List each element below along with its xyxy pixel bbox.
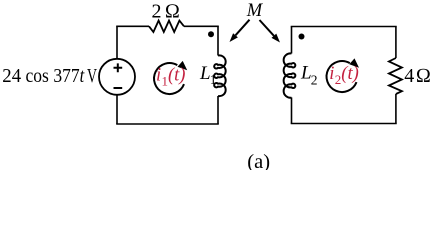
mutual inductance label M xyxy=(246,1,264,21)
label i1(t) xyxy=(156,66,185,89)
inductor L2 xyxy=(284,53,296,97)
label 24 cos 377t V xyxy=(2,65,97,87)
arrow from M to L1 dot xyxy=(230,20,250,42)
wire right-loop left side lower xyxy=(291,97,293,123)
coupling dot for L1 xyxy=(208,31,214,37)
svg-text:Ω: Ω xyxy=(416,65,431,87)
svg-text:4: 4 xyxy=(404,65,414,87)
wire right-loop bottom xyxy=(291,123,397,125)
wire left-loop bottom xyxy=(116,123,219,125)
svg-text:(t): (t) xyxy=(341,64,358,84)
wire right-loop left side upper xyxy=(291,27,293,54)
svg-text:1: 1 xyxy=(210,72,217,87)
svg-text:M: M xyxy=(246,1,264,21)
figure label (a) xyxy=(247,151,270,173)
svg-text:V: V xyxy=(87,65,97,87)
label 4 Ohm xyxy=(404,65,431,87)
svg-text:i: i xyxy=(329,64,334,84)
svg-text:(t): (t) xyxy=(168,66,185,86)
svg-text:2: 2 xyxy=(152,0,162,22)
arrow from M to L2 dot xyxy=(260,20,281,43)
wire left-loop right side lower xyxy=(217,96,219,124)
mesh current i1 loop arrow xyxy=(154,61,187,94)
svg-text:2: 2 xyxy=(311,73,318,88)
wire left-loop top-right segment xyxy=(184,25,219,27)
inductor L1 xyxy=(214,55,226,96)
label 2 Ohm xyxy=(152,0,180,22)
label i2(t) xyxy=(329,64,358,87)
label L1 xyxy=(199,63,217,87)
wire right-loop right side upper xyxy=(395,27,397,59)
svg-text:Ω: Ω xyxy=(165,0,180,22)
wire right-loop right side lower xyxy=(395,94,397,124)
label L2 xyxy=(300,63,318,88)
wire left-loop right side upper xyxy=(217,26,219,55)
svg-text:(a): (a) xyxy=(247,151,270,170)
voltage source VS 24cos377t xyxy=(99,59,135,95)
resistor R1 2 Ohm zigzag xyxy=(149,21,184,32)
wire left-loop top-left segment xyxy=(116,25,149,27)
svg-text:cos: cos xyxy=(26,65,49,87)
svg-text:377: 377 xyxy=(53,65,79,87)
wire left-loop left side upper xyxy=(116,26,118,59)
wire left-loop left side lower xyxy=(116,95,118,124)
mesh current i2 loop arrow xyxy=(327,58,359,92)
svg-text:24: 24 xyxy=(2,65,21,87)
coupling dot for L2 xyxy=(299,34,305,40)
wire right-loop top xyxy=(291,26,397,28)
resistor R2 4 Ohm vertical zigzag xyxy=(389,58,402,94)
svg-text:i: i xyxy=(156,66,161,86)
